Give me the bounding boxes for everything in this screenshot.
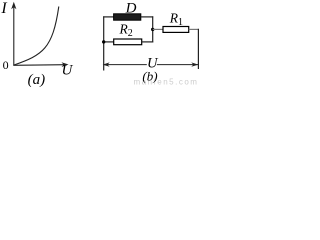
wire: R2 branch left horizontal xyxy=(103,41,114,43)
I-U characteristic curve xyxy=(14,7,59,66)
node junction dot (middle) xyxy=(151,28,154,31)
wire: left rail vertical xyxy=(103,16,105,70)
wire: R2 to middle vertical xyxy=(142,41,154,43)
svg-text:R1: R1 xyxy=(169,11,183,29)
wire: D to right corner xyxy=(141,16,153,18)
svg-text:I: I xyxy=(0,0,7,17)
svg-text:R2: R2 xyxy=(119,22,133,40)
node junction dot (left rail / R2 wire) xyxy=(102,40,105,43)
svg-text:0: 0 xyxy=(3,58,9,72)
voltage U dimension arrow (left half) xyxy=(103,62,147,66)
svg-text:(a): (a) xyxy=(28,72,45,87)
wire: R1 to right rail xyxy=(189,28,199,30)
voltage U dimension arrow (right half) xyxy=(157,62,198,66)
resistor R1 (outline box) xyxy=(163,27,189,33)
I-axis (vertical) with arrowhead xyxy=(11,2,16,66)
wire: right rail vertical xyxy=(197,29,199,69)
svg-text:D: D xyxy=(125,0,137,16)
U-axis (horizontal) with arrowhead xyxy=(13,62,68,67)
wire: top branch left horizontal to D xyxy=(103,16,114,18)
wire: middle vertical connector xyxy=(152,16,154,42)
svg-text:(b): (b) xyxy=(142,69,157,84)
resistor R2 (outline box) xyxy=(114,39,142,45)
wire: junction to R1 xyxy=(153,28,164,30)
diode D (filled box) xyxy=(114,14,141,20)
svg-text:U: U xyxy=(62,63,74,79)
